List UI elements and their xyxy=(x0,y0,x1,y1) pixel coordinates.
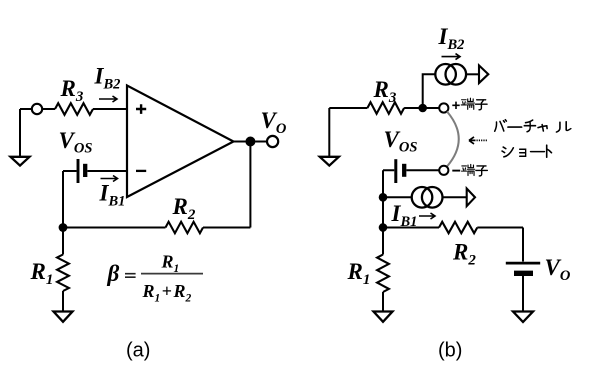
svg-text:R1 + R2: R1 + R2 xyxy=(142,281,192,305)
open terminal circle -tanshi xyxy=(439,166,448,175)
svg-text:VO: VO xyxy=(545,255,571,284)
katakana SI xyxy=(502,147,513,157)
wire R3 to +terminal (b) xyxy=(404,107,439,109)
label -tanshi kanji TAN xyxy=(462,164,475,175)
wire R2 to V_O battery (b) xyxy=(477,228,523,262)
svg-text:VOS: VOS xyxy=(59,128,93,157)
katakana small YO xyxy=(520,149,526,156)
wire R2 to output branch xyxy=(203,142,250,228)
label -tanshi minus sign xyxy=(452,170,460,172)
formula beta = R1/(R1+R2) xyxy=(107,252,204,305)
resistor R3 (b) xyxy=(367,102,404,114)
ground (b) input side xyxy=(320,108,339,166)
label +tanshi plus sign xyxy=(452,102,459,109)
wire junction up to current source I_B2 xyxy=(423,74,436,108)
wire ground to R3 (b) xyxy=(329,107,367,109)
current arrow I_B2 (a) xyxy=(99,96,117,102)
battery V_O: long plate (horizontal) xyxy=(506,262,540,265)
resistor R2 (b) xyxy=(439,222,477,233)
katakana BA xyxy=(495,120,507,132)
wire junction to R2 (b) xyxy=(383,227,439,229)
label -tanshi kanji SHI(ko) xyxy=(476,166,487,176)
wire R1 to ground (a) xyxy=(62,291,64,312)
label +tanshi kanji TAN xyxy=(461,98,474,109)
open arrowhead I_B2 source output xyxy=(479,65,488,83)
katakana TO xyxy=(547,145,552,157)
node: feedback junction dot (a) xyxy=(59,223,68,232)
junction dot at R2 branch (b) xyxy=(379,223,388,232)
wire node to R2 (a) xyxy=(63,227,166,229)
svg-text:R2: R2 xyxy=(172,194,196,223)
wire input to terminal xyxy=(20,108,32,110)
wire R1 to ground (b) xyxy=(382,292,384,312)
battery V_O: short thick plate xyxy=(514,271,533,276)
katakana long dash (line2) xyxy=(531,151,545,153)
wire V_O battery to ground xyxy=(522,276,524,312)
ground (a) input side xyxy=(11,109,30,166)
svg-text:R3: R3 xyxy=(60,76,84,105)
battery V_OS (a): short thick plate xyxy=(83,164,87,177)
op-amp - input sign xyxy=(136,170,146,172)
svg-text:(b): (b) xyxy=(438,340,462,362)
svg-text:IB2: IB2 xyxy=(438,24,465,53)
resistor R1 (a) xyxy=(57,255,69,292)
wire current source I_B1 to arrowhead xyxy=(443,196,467,198)
katakana long dash (line1) xyxy=(508,126,522,128)
katakana small YA xyxy=(538,125,547,131)
svg-text:R1: R1 xyxy=(347,259,371,288)
wire terminal to R3 (a) xyxy=(43,108,55,110)
katakana RU xyxy=(556,122,570,132)
svg-text:R3: R3 xyxy=(373,77,397,106)
output terminal circle V_O xyxy=(267,136,278,147)
ground under V_O (b) xyxy=(513,312,533,323)
resistor R1 (b) xyxy=(377,255,389,293)
svg-text:(a): (a) xyxy=(126,340,150,362)
svg-text:IB1: IB1 xyxy=(391,201,418,230)
output junction dot xyxy=(245,137,255,147)
current arrow over I_B1 (a) xyxy=(101,176,118,182)
svg-text:R1: R1 xyxy=(30,259,54,288)
battery V_OS (b): short thick plate xyxy=(402,164,406,177)
input terminal circle (a) xyxy=(32,104,42,114)
svg-text:VO: VO xyxy=(261,108,287,137)
current source I_B2 (two circles) xyxy=(435,64,456,85)
wire node down to R1 (a) xyxy=(62,228,64,255)
gray virtual-short arc xyxy=(447,112,459,167)
wire battery left down to I_B1 source (b) xyxy=(383,170,394,254)
open terminal circle +tanshi xyxy=(439,103,448,112)
wire battery left down to node xyxy=(63,171,77,228)
svg-text:R2: R2 xyxy=(452,240,476,269)
svg-text:IB1: IB1 xyxy=(99,181,126,210)
output wire op-amp to terminal xyxy=(234,141,268,143)
ground under R1 (b) xyxy=(374,312,393,322)
junction dot at I_B1 source (b) xyxy=(379,193,388,202)
resistor R2 (a) xyxy=(166,222,204,233)
junction dot at R3/current source (b) xyxy=(418,104,427,113)
open arrowhead I_B1 source output xyxy=(467,189,475,207)
dotted pointer arrow xyxy=(469,137,476,144)
wire battery to op-amp - input xyxy=(87,170,127,172)
wire current source to arrow (b top) xyxy=(466,73,479,75)
svg-text:R1: R1 xyxy=(161,252,180,276)
current arrow above I_B2 source xyxy=(442,54,461,60)
ground under R1 (a) xyxy=(54,312,73,322)
wire battery to -terminal circle (b) xyxy=(406,169,439,171)
katakana CHI xyxy=(524,120,535,132)
wire R3 to op-amp + input xyxy=(93,108,127,110)
resistor R3 (a) xyxy=(55,103,93,115)
battery V_OS (a): long plate xyxy=(77,159,80,183)
label +tanshi kanji SHI(ko) xyxy=(476,100,487,110)
battery V_OS (b): long plate xyxy=(394,159,397,183)
svg-text:VOS: VOS xyxy=(384,127,418,156)
op-amp U1 triangle xyxy=(127,86,234,198)
svg-text:IB2: IB2 xyxy=(94,64,121,93)
svg-text:β: β xyxy=(107,261,120,286)
op-amp + input sign xyxy=(136,104,146,114)
current source I_B1 (two circles) xyxy=(412,187,433,208)
wire junction to current source I_B1 xyxy=(383,196,412,198)
